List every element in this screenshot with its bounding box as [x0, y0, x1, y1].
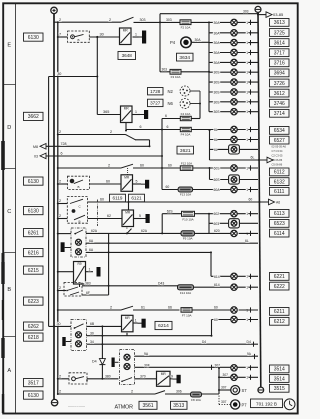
component box 6223 left col y297 — [24, 297, 44, 305]
connector N leads — [190, 90, 200, 92]
svg-text:1: 1 — [135, 110, 137, 114]
svg-text:6214: 6214 — [158, 323, 169, 329]
wire junction 28 — [208, 71, 210, 73]
svg-text:6B: 6B — [90, 322, 95, 326]
svg-text:602: 602 — [214, 212, 220, 216]
svg-text:30A: 30A — [214, 61, 221, 65]
wire 380 row — [87, 378, 119, 380]
svg-text:1: 1 — [246, 212, 248, 216]
relay R9 — [74, 262, 86, 285]
terminal minus top right — [255, 6, 261, 12]
switch G5 blade — [67, 287, 78, 291]
component box 6527 right col — [270, 136, 290, 144]
svg-text:3613: 3613 — [274, 20, 285, 26]
component box 6130 left col y206.5 — [24, 207, 44, 215]
svg-text:60: 60 — [214, 318, 218, 322]
wire 2 row G4b — [58, 218, 68, 220]
switch blade R4 bottom — [127, 229, 132, 234]
lamp row 30S y82 wire — [209, 81, 258, 83]
svg-text:6534: 6534 — [274, 128, 285, 134]
wire 2 row G6 — [58, 309, 121, 311]
clock symbol — [284, 399, 295, 410]
svg-text:P7: P7 — [242, 403, 248, 408]
lamp L620 — [231, 230, 237, 236]
svg-text:D4: D4 — [202, 340, 206, 344]
wire 2 bottom row — [58, 393, 155, 395]
svg-text:307: 307 — [223, 373, 229, 377]
svg-text:60: 60 — [168, 164, 172, 168]
lamp in G7 2 — [76, 341, 82, 347]
fuse F10 10A — [182, 211, 195, 216]
wire junction 24 — [218, 376, 220, 378]
wire junction 22 — [101, 378, 103, 380]
wire 30 G7 — [49, 325, 71, 327]
svg-text:A6: A6 — [276, 201, 280, 205]
svg-text:3517: 3517 — [28, 380, 39, 386]
cross ref arrow mid right — [267, 157, 273, 163]
svg-text:3514: 3514 — [274, 376, 285, 382]
component box 3612 right col — [270, 89, 290, 97]
wire junction 12 — [161, 232, 163, 234]
component box 6261 left col y228.5 — [24, 229, 44, 237]
wire 30 G7b — [87, 335, 212, 337]
svg-text:1: 1 — [135, 319, 137, 323]
pin tick 60S3 — [250, 187, 252, 192]
switch lamp unit dashed G4c — [71, 228, 86, 257]
svg-text:F14 10A: F14 10A — [180, 291, 191, 295]
wire 60S to F10 — [162, 213, 181, 215]
wire 2 row G5 — [58, 290, 66, 292]
svg-text:1: 1 — [246, 61, 248, 65]
svg-text:6L: 6L — [251, 156, 255, 160]
component box 6132 right col — [270, 178, 290, 186]
pin tick row 2 — [250, 40, 252, 45]
wire junction 25 — [218, 389, 220, 391]
bus ground vertical right — [258, 12, 261, 387]
wire junction 34 — [53, 76, 55, 78]
svg-text:306: 306 — [176, 390, 182, 394]
svg-text:6132: 6132 — [274, 179, 285, 185]
lamp row 6L1 wire — [210, 129, 259, 131]
wire junction 14 — [57, 233, 59, 235]
lamp L307a — [231, 365, 237, 371]
vertical 62A junction — [108, 233, 110, 295]
arrow 03 left — [40, 153, 46, 159]
wire 2 row G3b — [58, 183, 68, 185]
pin tick D4 row — [253, 342, 255, 347]
wire 9A long — [135, 355, 259, 357]
pin tick 614b — [250, 285, 252, 290]
svg-text:F10 10A: F10 10A — [182, 217, 193, 221]
svg-text:6222: 6222 — [274, 284, 285, 290]
wire R3 out — [133, 183, 142, 185]
switch blade G2b — [126, 135, 136, 140]
switch in G8 unit — [122, 378, 132, 382]
lamp row 30S y102 wire — [209, 101, 258, 103]
lamp row 60S1 — [210, 167, 259, 169]
wire F10 to bus — [195, 213, 210, 215]
wire F4b to bus — [191, 129, 209, 131]
wire junction 26 — [211, 335, 213, 337]
svg-text:5: 5 — [136, 180, 138, 184]
svg-text:1: 1 — [246, 110, 248, 114]
switch box dashed G8b — [69, 373, 87, 384]
wire 60 to F13 — [162, 189, 178, 191]
connector bar R3 — [141, 183, 145, 185]
wire F7 to lamps — [192, 309, 231, 311]
svg-text:6112: 6112 — [274, 170, 285, 176]
svg-text:30: 30 — [100, 33, 104, 37]
ground terminal bottom right — [258, 387, 264, 393]
lamp row 30A y62 wire — [209, 61, 258, 63]
svg-text:3614: 3614 — [274, 40, 285, 46]
switch bottom — [155, 391, 165, 394]
svg-text:6211: 6211 — [274, 309, 285, 315]
svg-text:MR: MR — [161, 372, 167, 376]
pin tick 620 — [250, 231, 252, 236]
pin tick row 1 — [250, 30, 252, 35]
plate number box 701 192 B — [251, 399, 283, 408]
wire junction 2 — [96, 76, 98, 78]
svg-text:D: D — [7, 125, 11, 131]
wire junction 36 — [57, 21, 59, 23]
wire junction 1 — [257, 13, 259, 15]
component box 6212 right col — [270, 317, 290, 325]
ground bar G7 — [62, 337, 65, 346]
wire 7 row — [58, 36, 68, 38]
wire junction 44 — [57, 309, 59, 311]
wire junction 31 — [208, 213, 210, 215]
svg-text:30A: 30A — [214, 41, 221, 45]
pin tick row 0 — [250, 20, 252, 25]
switch G3a — [121, 164, 133, 168]
wire 2 row ignition — [54, 21, 121, 23]
wire F14 to lamp — [194, 286, 259, 288]
svg-text:60: 60 — [214, 306, 218, 310]
svg-text:614: 614 — [214, 283, 220, 287]
left edge thick mark 3 — [1, 262, 4, 284]
svg-text:02-05-05-A6: 02-05-05-A6 — [272, 144, 287, 148]
connector N2 dashed circle — [180, 86, 190, 96]
svg-text:30A: 30A — [214, 51, 221, 55]
fuse F12 10A — [180, 166, 193, 171]
pin tick row 6 — [250, 80, 252, 85]
pin tick 60S1 — [250, 165, 252, 170]
lamp L6L2 — [231, 136, 237, 142]
wire junction 46 — [57, 393, 59, 395]
wire 2 row G2 — [58, 134, 126, 136]
wire junction 37 — [57, 36, 59, 38]
wire 303 to fuse F3 — [160, 71, 170, 73]
component box 3634 — [177, 53, 194, 61]
wire F2 to cluster bus — [191, 21, 209, 23]
connector bar R2 — [140, 114, 144, 116]
wire P7 row dotted — [219, 404, 231, 406]
gauge P7 — [231, 400, 240, 409]
left edge thick mark 1 — [1, 141, 5, 170]
wire junction 11 — [258, 201, 260, 203]
component box 6211 right col — [270, 308, 290, 316]
lamp L60S3 — [231, 186, 237, 192]
component box 3746 right col — [270, 99, 290, 107]
svg-text:2: 2 — [59, 18, 61, 22]
svg-text:30S: 30S — [214, 71, 221, 75]
svg-text:2: 2 — [110, 130, 112, 134]
relay R4 bottom pin — [126, 227, 128, 230]
svg-text:6113: 6113 — [274, 211, 285, 217]
svg-text:6: 6 — [61, 152, 63, 156]
svg-text:C7 C3 04: C7 C3 04 — [272, 149, 284, 153]
connector bar R4 — [142, 218, 146, 220]
wire 306 to F8 — [172, 393, 191, 395]
svg-text:30S: 30S — [214, 91, 221, 95]
svg-text:1: 1 — [246, 138, 248, 142]
svg-text:60: 60 — [249, 198, 253, 202]
wire 66 to F7 — [140, 309, 180, 311]
svg-text:6L: 6L — [214, 138, 218, 142]
wire bus2 to R9 — [58, 271, 74, 273]
wire 62A row — [86, 232, 181, 234]
svg-text:30: 30 — [90, 332, 94, 336]
lamp row 30S y92 wire — [209, 91, 258, 93]
svg-text:MR: MR — [123, 29, 129, 33]
wire junction 45 — [57, 378, 59, 380]
stub to R4 coil — [128, 202, 130, 210]
wire junction 30 — [209, 167, 211, 169]
svg-text:N6: N6 — [168, 101, 174, 106]
svg-text:F3 10A: F3 10A — [171, 75, 181, 79]
svg-text:E: E — [7, 43, 11, 49]
svg-text:60: 60 — [100, 198, 104, 202]
component box 6222 right col — [270, 282, 290, 290]
lamp L60S1 — [231, 165, 237, 171]
wire junction 42 — [57, 290, 59, 292]
svg-text:620: 620 — [214, 229, 220, 233]
switch box dashed G4 — [67, 197, 87, 224]
lamp in unit 2 — [76, 249, 82, 255]
svg-text:F4 10A: F4 10A — [181, 133, 191, 137]
pin tick 9A — [254, 354, 256, 359]
ground terminal bottom left — [51, 399, 57, 405]
switch box dashed G5 — [64, 283, 82, 297]
svg-text:MR: MR — [124, 175, 130, 179]
feed vertical 60 row2 — [211, 320, 213, 336]
svg-text:6130: 6130 — [28, 208, 39, 214]
wire F8 out — [202, 393, 220, 395]
svg-text:1: 1 — [246, 166, 248, 170]
lamp in G7 1 — [76, 332, 82, 338]
boxed lamp 603 — [229, 219, 240, 228]
arrow M8 left — [40, 144, 46, 150]
lamp row 30A y22 wire — [209, 21, 258, 23]
svg-text:1: 1 — [246, 286, 248, 290]
wire junction 7 — [161, 129, 163, 131]
lamp row 30S y72 wire — [209, 71, 258, 73]
lamp row 6L3 wire — [210, 148, 259, 150]
switch lamp unit dashed G8 — [120, 350, 135, 385]
pin tick row 5 — [250, 70, 252, 75]
svg-text:3515: 3515 — [274, 386, 285, 392]
lamp L60b — [231, 316, 237, 322]
wire 383 row — [82, 285, 178, 287]
component box 6215 left col y266 — [24, 266, 44, 274]
wire junction 15 — [108, 251, 110, 253]
svg-text:C5 06-86: C5 06-86 — [272, 163, 283, 167]
svg-text:307: 307 — [221, 386, 227, 390]
svg-text:728: 728 — [61, 142, 67, 146]
connector N6 dashed circle — [180, 99, 190, 109]
svg-text:383: 383 — [85, 282, 91, 286]
left edge thick mark 6 — [2, 394, 4, 413]
svg-text:2: 2 — [59, 390, 61, 394]
wire junction 40 — [57, 203, 59, 205]
wire 2 row G4a — [58, 203, 68, 205]
svg-text:3634: 3634 — [179, 55, 190, 61]
svg-text:B: B — [78, 185, 80, 189]
component box 3727 — [148, 99, 164, 106]
lamp row 602a — [209, 213, 258, 215]
svg-text:1: 1 — [246, 31, 248, 35]
svg-text:6111: 6111 — [274, 189, 285, 195]
svg-text:62A: 62A — [141, 229, 148, 233]
lamp row 60S2 — [210, 179, 229, 181]
component box 3648 — [118, 52, 136, 60]
svg-text:603: 603 — [214, 222, 220, 226]
wire 6 to 03 arrow — [46, 155, 162, 157]
svg-text:2: 2 — [109, 18, 111, 22]
cluster bus segment 614 — [210, 252, 212, 276]
junction vertical F2-F3 — [159, 14, 161, 72]
column boundary dashdot — [97, 200, 99, 227]
wire junction 9 — [128, 201, 130, 203]
component box 6119 — [110, 194, 126, 202]
svg-text:2: 2 — [59, 375, 61, 379]
component box 6523 right col — [270, 220, 290, 228]
bus 2 vertical left — [57, 22, 59, 394]
lamp L307b — [231, 374, 237, 380]
svg-text:365: 365 — [103, 110, 109, 114]
wire 30 lower row — [49, 76, 98, 78]
wire junction 43 — [126, 232, 128, 234]
relay R6 — [122, 315, 134, 332]
wire 34 G7c — [87, 343, 103, 345]
lamp L60a — [231, 307, 237, 313]
pin tick 60b — [250, 317, 252, 322]
svg-text:6527: 6527 — [274, 138, 285, 144]
component box 3614 right col — [270, 39, 290, 47]
wire 728 to M8 arrow — [46, 145, 150, 147]
svg-text:6L: 6L — [214, 128, 218, 132]
component box 3561 — [139, 401, 157, 409]
switch lamp unit dashed G7 — [71, 320, 87, 351]
lamp L6L1 — [231, 126, 237, 132]
svg-text:6114: 6114 — [274, 231, 285, 237]
wire junction 29 — [209, 129, 211, 131]
cross ref arrow top right — [266, 12, 272, 18]
component box 3515 right col — [270, 384, 290, 392]
svg-text:1: 1 — [246, 275, 248, 279]
wire junction 0 — [159, 21, 161, 23]
battery terminal 30 top — [51, 7, 57, 13]
wire junction 19 — [101, 325, 103, 327]
svg-text:30S: 30S — [214, 110, 221, 114]
component box 3514 right col — [270, 375, 290, 383]
svg-text:3648: 3648 — [122, 53, 133, 58]
component box 3717 right col — [270, 49, 290, 57]
component box 3517 left col y378.5 — [24, 379, 44, 387]
pin tick 614a — [250, 274, 252, 279]
wire 303 to fuse F2 — [134, 21, 181, 23]
svg-text:30: 30 — [57, 72, 61, 76]
component box 3662 left col y112.3 — [24, 112, 44, 120]
lamp L614b — [231, 284, 237, 290]
lamp L602 — [231, 211, 237, 217]
relay R4 — [122, 210, 134, 227]
wire lamp620 bus — [239, 232, 258, 234]
component box 3513 — [171, 401, 188, 409]
svg-text:6F: 6F — [86, 291, 90, 295]
svg-text:60S: 60S — [214, 178, 221, 182]
lamp row 6L2 wire — [210, 139, 259, 141]
svg-text:3714: 3714 — [274, 111, 285, 117]
svg-text:B: B — [7, 287, 11, 293]
component box 6114 right col — [270, 229, 290, 237]
lamp L4 — [231, 49, 237, 55]
svg-text:307: 307 — [215, 364, 221, 368]
svg-text:6: 6 — [165, 114, 167, 118]
svg-text:303: 303 — [243, 9, 249, 13]
bus 30 vertical left — [53, 14, 55, 400]
cigar lighter P4 — [181, 37, 192, 48]
connector bar R9 — [97, 267, 101, 277]
wire junction 47 — [53, 325, 55, 327]
junction vert F10-F9 — [161, 214, 163, 234]
wire G3b to relay R3 — [90, 183, 122, 185]
cluster bus segment 307 — [218, 368, 220, 393]
lamp L6 — [231, 69, 237, 75]
component box 3726 right col — [270, 79, 290, 87]
wire junction 21 — [101, 343, 103, 345]
svg-text:6221: 6221 — [274, 274, 285, 280]
component box 3514 right col — [270, 365, 290, 373]
wire junction 41 — [57, 218, 59, 220]
svg-text:30A: 30A — [195, 38, 202, 42]
zone tick E/D — [4, 84, 16, 86]
svg-text:6L: 6L — [214, 148, 218, 152]
wire lamp60a bus — [239, 309, 258, 311]
pin tick row 4 — [250, 60, 252, 65]
wire junction 6 — [161, 167, 163, 169]
svg-text:30: 30 — [57, 322, 61, 326]
svg-text:1: 1 — [246, 318, 248, 322]
connector bar R7 — [173, 378, 177, 380]
pin tick row 8 — [250, 99, 252, 104]
svg-text:3725: 3725 — [274, 30, 285, 36]
wire F4a up to N — [191, 118, 200, 120]
wire 6F link — [82, 294, 109, 296]
svg-text:P4: P4 — [170, 40, 176, 45]
svg-text:60: 60 — [140, 164, 144, 168]
svg-text:60A: 60A — [214, 188, 221, 192]
svg-text:380: 380 — [105, 375, 111, 379]
svg-text:30A: 30A — [214, 21, 221, 25]
wire 6A row2 — [86, 251, 211, 253]
svg-text:6523: 6523 — [274, 221, 285, 227]
svg-text:34: 34 — [90, 340, 94, 344]
svg-text:2: 2 — [59, 286, 61, 290]
pin tick 307b — [250, 375, 252, 380]
wire 6 F4b — [125, 123, 127, 130]
